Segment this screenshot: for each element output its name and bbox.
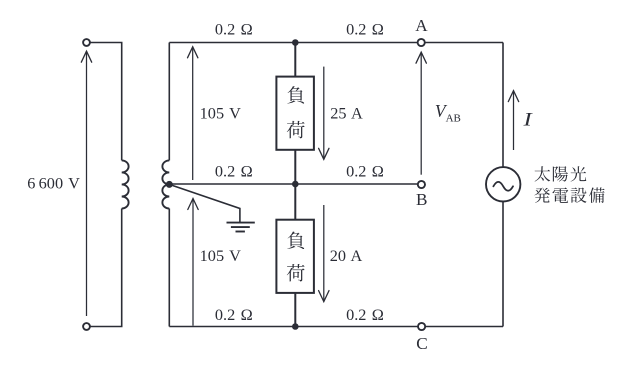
solar equipment label line1 太陽光 [535, 166, 551, 181]
25A current arrow [323, 67, 325, 160]
svg-text:0.2 Ω: 0.2 Ω [215, 305, 253, 324]
svg-text:AB: AB [446, 112, 461, 124]
junction dot top wire [292, 39, 299, 46]
svg-text:105 V: 105 V [200, 246, 241, 265]
secondary upper lead wire [168, 43, 170, 161]
load1 box [276, 77, 314, 150]
svg-text:6 600 V: 6 600 V [27, 174, 80, 193]
svg-text:0.2 Ω: 0.2 Ω [346, 20, 384, 39]
svg-text:0.2 Ω: 0.2 Ω [346, 305, 384, 324]
transformer secondary winding [162, 160, 169, 208]
105V lower voltage arrow [192, 199, 194, 326]
secondary center-tap junction dot [166, 181, 173, 188]
load1 label ka (荷) [287, 121, 305, 139]
earth connection wire from center tap [169, 184, 240, 222]
solar AC source circle [486, 167, 520, 201]
svg-text:0.2 Ω: 0.2 Ω [215, 161, 253, 180]
105V upper voltage arrow [192, 47, 194, 180]
ground symbol [227, 223, 255, 232]
junction dot bottom wire [292, 323, 299, 330]
load2 branch wire lower [294, 293, 296, 327]
HV bottom terminal [83, 323, 90, 330]
I current arrow [513, 91, 515, 150]
transformer primary winding [122, 160, 129, 208]
load2 label fu (負) [287, 232, 304, 249]
bottom line wire (to C) [169, 326, 503, 328]
solar equipment label line2 発電設備 [534, 188, 550, 203]
load2 branch wire upper [294, 184, 296, 220]
load1 branch wire upper [294, 43, 296, 77]
svg-text:105 V: 105 V [200, 103, 241, 122]
svg-text:20 A: 20 A [330, 246, 363, 265]
svg-text:B: B [416, 190, 427, 209]
VAB voltage arrow [420, 52, 422, 175]
load1 branch wire lower [294, 150, 296, 184]
svg-text:0.2 Ω: 0.2 Ω [215, 20, 253, 39]
svg-text:25 A: 25 A [330, 103, 363, 122]
6600V voltage arrow [86, 51, 88, 316]
wire from bottom HV terminal to primary winding [90, 209, 121, 327]
top line wire (to A) [169, 42, 503, 44]
terminal C [418, 323, 425, 330]
load2 box [276, 220, 314, 293]
solar AC source sine [493, 182, 513, 191]
load2 label ka (荷) [287, 264, 305, 282]
svg-text:A: A [415, 16, 428, 35]
right-side wire from A to solar source [502, 43, 504, 168]
secondary lower lead wire [168, 209, 170, 327]
right-side wire from solar source to C [502, 202, 504, 327]
load1 label fu (負) [287, 86, 304, 103]
terminal A [418, 39, 425, 46]
wire from top HV terminal to primary winding [90, 43, 121, 161]
terminal B [418, 181, 425, 188]
neutral middle wire (to B) [169, 183, 418, 185]
svg-text:C: C [416, 334, 427, 353]
HV top terminal [83, 39, 90, 46]
junction dot middle wire [292, 181, 299, 188]
svg-text:0.2 Ω: 0.2 Ω [346, 161, 384, 180]
20A current arrow [323, 205, 325, 302]
